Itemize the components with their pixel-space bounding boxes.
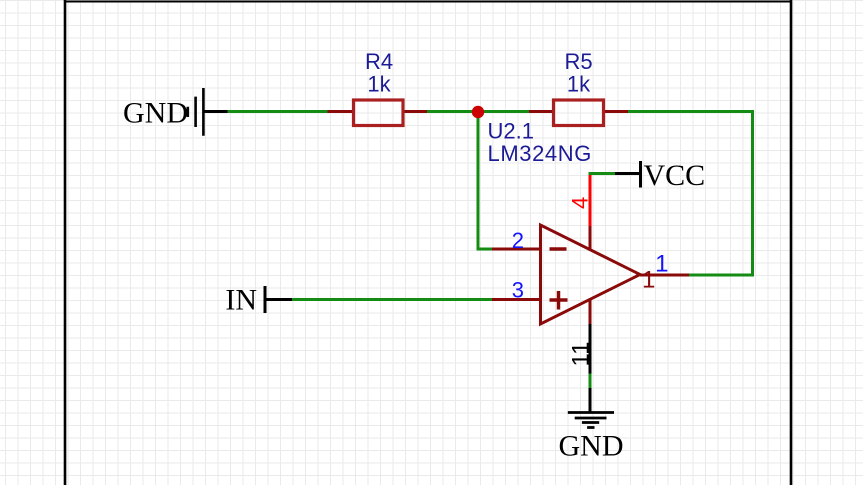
svg-text:1: 1 (642, 267, 655, 294)
label GND (bottom) (559, 430, 624, 463)
svg-text:LM324NG: LM324NG (488, 141, 592, 166)
wire IN to pin 3 (292, 298, 492, 301)
pin number 11 (568, 342, 595, 367)
label IN (225, 284, 257, 317)
svg-text:IN: IN (225, 284, 257, 317)
value 1k (R5) (567, 71, 591, 96)
svg-text:U2.1: U2.1 (488, 119, 534, 144)
label GND (left) (123, 96, 188, 129)
svg-text:2: 2 (512, 228, 524, 253)
wire node A to R5 (478, 110, 529, 113)
svg-text:3: 3 (512, 277, 524, 302)
pin number 3 (512, 277, 524, 302)
svg-text:GND: GND (123, 96, 188, 129)
svg-text:R5: R5 (564, 49, 592, 74)
label R5 (564, 49, 592, 74)
junction node A (472, 106, 484, 118)
wire R4 to node A (427, 110, 478, 113)
pin 11 (V-) (589, 300, 592, 374)
wire GND to R4 (228, 110, 328, 113)
svg-text:1k: 1k (367, 71, 391, 96)
svg-text:GND: GND (559, 430, 624, 463)
power flag VCC (589, 161, 641, 188)
resistor R5 (529, 100, 628, 126)
svg-text:1k: 1k (567, 71, 591, 96)
wire R5 to output (feedback net) (628, 112, 753, 276)
svg-text:1: 1 (655, 251, 668, 278)
wire pin 11 to GND (589, 374, 592, 389)
label VCC (644, 159, 706, 192)
resistor R4 (328, 100, 428, 126)
wire node A to pin 2 (478, 112, 492, 249)
label U2.1 (488, 119, 534, 144)
ground GND (left) (188, 88, 228, 136)
pin 3 (non-inverting input) (492, 298, 541, 301)
pin number 1 (655, 251, 668, 278)
svg-text:VCC: VCC (644, 159, 706, 192)
pin name 1 (642, 267, 655, 294)
value 1k (R4) (367, 71, 391, 96)
wire VCC to pin 4 (589, 174, 592, 227)
pin 1 (output) (640, 274, 689, 277)
ground GND (bottom) (568, 388, 614, 428)
op-amp U2.1 body (541, 225, 641, 324)
pin 4 (V+) (589, 225, 592, 250)
svg-text:R4: R4 (365, 49, 393, 74)
label LM324NG (488, 141, 592, 166)
pin number 2 (512, 228, 524, 253)
pin 2 (inverting input) (492, 248, 541, 251)
label R4 (365, 49, 393, 74)
pin number 4 (568, 197, 593, 209)
port IN (265, 286, 292, 313)
svg-text:11: 11 (568, 342, 595, 367)
